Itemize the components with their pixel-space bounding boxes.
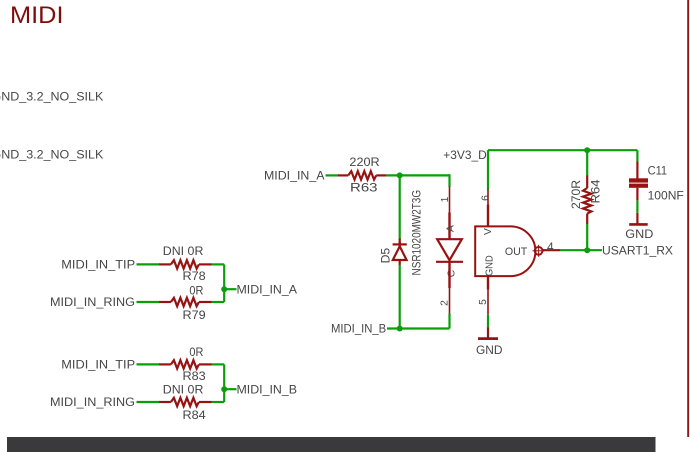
wire RING-A — [137, 301, 161, 303]
LED diode of optocoupler — [436, 239, 463, 262]
pin number 6 (rotated) — [481, 195, 492, 201]
svg-text:V: V — [483, 228, 494, 235]
wire pin6 vertical net — [487, 150, 489, 190]
pin name C (rotated) — [446, 269, 457, 277]
name D5 (rotated) — [379, 248, 393, 264]
opto-coupler gate body U — [475, 226, 535, 276]
wire MIDI_IN_B horizontal — [387, 327, 450, 329]
svg-text:R78: R78 — [183, 269, 206, 283]
svg-text:USART1_RX: USART1_RX — [602, 243, 673, 257]
svg-text:NSR1020MW2T3G: NSR1020MW2T3G — [410, 190, 424, 276]
svg-text:0R: 0R — [189, 345, 203, 359]
svg-text:GND: GND — [625, 227, 653, 241]
svg-text:MIDI_IN_TIP: MIDI_IN_TIP — [61, 258, 135, 272]
svg-text:MIDI_IN_RING: MIDI_IN_RING — [50, 395, 135, 409]
svg-text:GND: GND — [476, 343, 503, 357]
wire C11 drop — [636, 150, 638, 162]
wire MIDI_IN_A to R63 — [326, 174, 340, 176]
svg-text:R79: R79 — [183, 308, 206, 322]
ground symbol pin (C11) — [636, 213, 638, 224]
pin 2 lead thin part — [449, 288, 451, 314]
node junction +3V3 / R64 — [584, 147, 590, 153]
svg-text:GND_3.2_NO_SILK: GND_3.2_NO_SILK — [0, 89, 103, 103]
wire optocoupler LED branch top — [448, 174, 450, 187]
svg-text:MIDI_IN_A: MIDI_IN_A — [264, 169, 325, 183]
svg-text:5: 5 — [478, 299, 489, 305]
pin 4 lead — [543, 249, 561, 251]
frame border right — [687, 0, 689, 437]
pin name GND inside gate (rotated) — [484, 255, 495, 276]
svg-text:220R: 220R — [349, 155, 380, 169]
ground symbol pin (U1) — [487, 328, 489, 338]
wire D5 branch lower — [399, 265, 401, 329]
output bubble with origin cross — [533, 250, 545, 252]
wire D5 branch upper — [399, 175, 401, 240]
ground bar (U1) — [478, 337, 498, 340]
svg-text:MIDI_IN_RING: MIDI_IN_RING — [50, 295, 135, 309]
wire R84 to junction — [212, 401, 225, 403]
node junction B — [221, 386, 227, 392]
svg-text:A: A — [446, 225, 457, 232]
svg-text:C11: C11 — [648, 164, 668, 178]
wire pin5 to ground — [487, 315, 489, 328]
node junction R63 / D5 — [397, 172, 403, 178]
resistor R64 (vertical) — [583, 176, 591, 225]
svg-text:100NF: 100NF — [648, 189, 684, 203]
svg-text:MIDI_IN_B: MIDI_IN_B — [331, 322, 386, 336]
svg-text:4: 4 — [547, 240, 554, 254]
wire R78 to junction — [212, 263, 225, 265]
name R64 (rotated) — [589, 179, 603, 203]
svg-text:DNI 0R: DNI 0R — [163, 244, 204, 258]
node junction D5 / MIDI_IN_B — [397, 326, 403, 332]
pin 1 lead thick part — [448, 213, 450, 240]
svg-text:GND_3.2_NO_SILK: GND_3.2_NO_SILK — [0, 147, 103, 161]
wire R64 top — [586, 150, 588, 176]
wire vertical connector A — [223, 264, 225, 302]
pin 5 lead — [487, 276, 489, 290]
svg-text:2: 2 — [440, 300, 451, 306]
svg-text:MIDI_IN_B: MIDI_IN_B — [237, 382, 298, 396]
pin 2 lead — [448, 262, 450, 288]
wire +3V3 rail — [488, 149, 637, 151]
value 270R (rotated) — [569, 180, 583, 209]
svg-text:1: 1 — [440, 196, 451, 202]
pin 1 lead — [449, 187, 451, 213]
wire R64 bottom — [586, 224, 588, 250]
svg-text:MIDI: MIDI — [10, 2, 63, 29]
pin name A (rotated) — [446, 225, 457, 232]
wire R63 to diode branch — [386, 174, 449, 176]
svg-text:6: 6 — [481, 195, 492, 201]
wire vertical connector B — [223, 364, 225, 402]
wire TIP-A — [137, 263, 161, 265]
resistor R63 — [338, 171, 386, 179]
ground bar (C11) — [629, 223, 648, 226]
svg-text:R84: R84 — [183, 408, 206, 422]
wire TIP-B — [137, 363, 161, 365]
resistor R78 — [159, 260, 211, 268]
pin name V (rotated, clipped) — [483, 228, 494, 235]
capacitor C11 top lead — [636, 162, 638, 179]
wire output to USART1_RX — [560, 249, 602, 251]
svg-text:C: C — [446, 269, 457, 277]
pin 6 lead thick part — [487, 205, 489, 227]
svg-text:DNI 0R: DNI 0R — [163, 383, 204, 397]
wire RING-B — [137, 401, 161, 403]
wire C11 to GND net — [636, 200, 638, 212]
node junction A — [221, 286, 227, 292]
svg-text:R63: R63 — [350, 180, 378, 194]
diode D5 — [393, 239, 407, 266]
value NSR1020MW2T3G (rotated) — [410, 190, 424, 276]
resistor R84 — [159, 398, 211, 406]
svg-text:R64: R64 — [589, 179, 603, 203]
svg-text:MIDI_IN_TIP: MIDI_IN_TIP — [61, 358, 135, 372]
resistor R83 — [159, 360, 211, 368]
svg-text:270R: 270R — [569, 180, 583, 209]
wire stub MIDI_IN_A — [224, 288, 236, 290]
bottom dark bar — [7, 437, 656, 452]
svg-text:+3V3_D: +3V3_D — [443, 148, 487, 162]
svg-text:D5: D5 — [379, 248, 393, 264]
capacitor C11 — [629, 178, 648, 182]
svg-text:GND: GND — [484, 255, 495, 276]
pin 5 lead thin part — [487, 290, 489, 315]
wire LED branch bottom — [448, 314, 450, 329]
wire R79 to junction — [212, 301, 225, 303]
resistor R79 — [159, 298, 211, 306]
pin number 5 (rotated) — [478, 299, 489, 305]
pin number 2 (rotated) — [440, 300, 451, 306]
pin number 1 (rotated) — [440, 196, 451, 202]
svg-text:OUT: OUT — [505, 246, 528, 258]
wire stub MIDI_IN_B — [224, 388, 236, 390]
svg-text:0R: 0R — [189, 284, 203, 298]
node junction R64 / output — [584, 247, 590, 253]
svg-text:MIDI_IN_A: MIDI_IN_A — [237, 282, 298, 296]
wire C11 bottom — [636, 188, 638, 201]
wire R83 to junction — [212, 363, 225, 365]
pin 6 lead — [487, 190, 489, 205]
svg-text:R83: R83 — [183, 369, 206, 383]
